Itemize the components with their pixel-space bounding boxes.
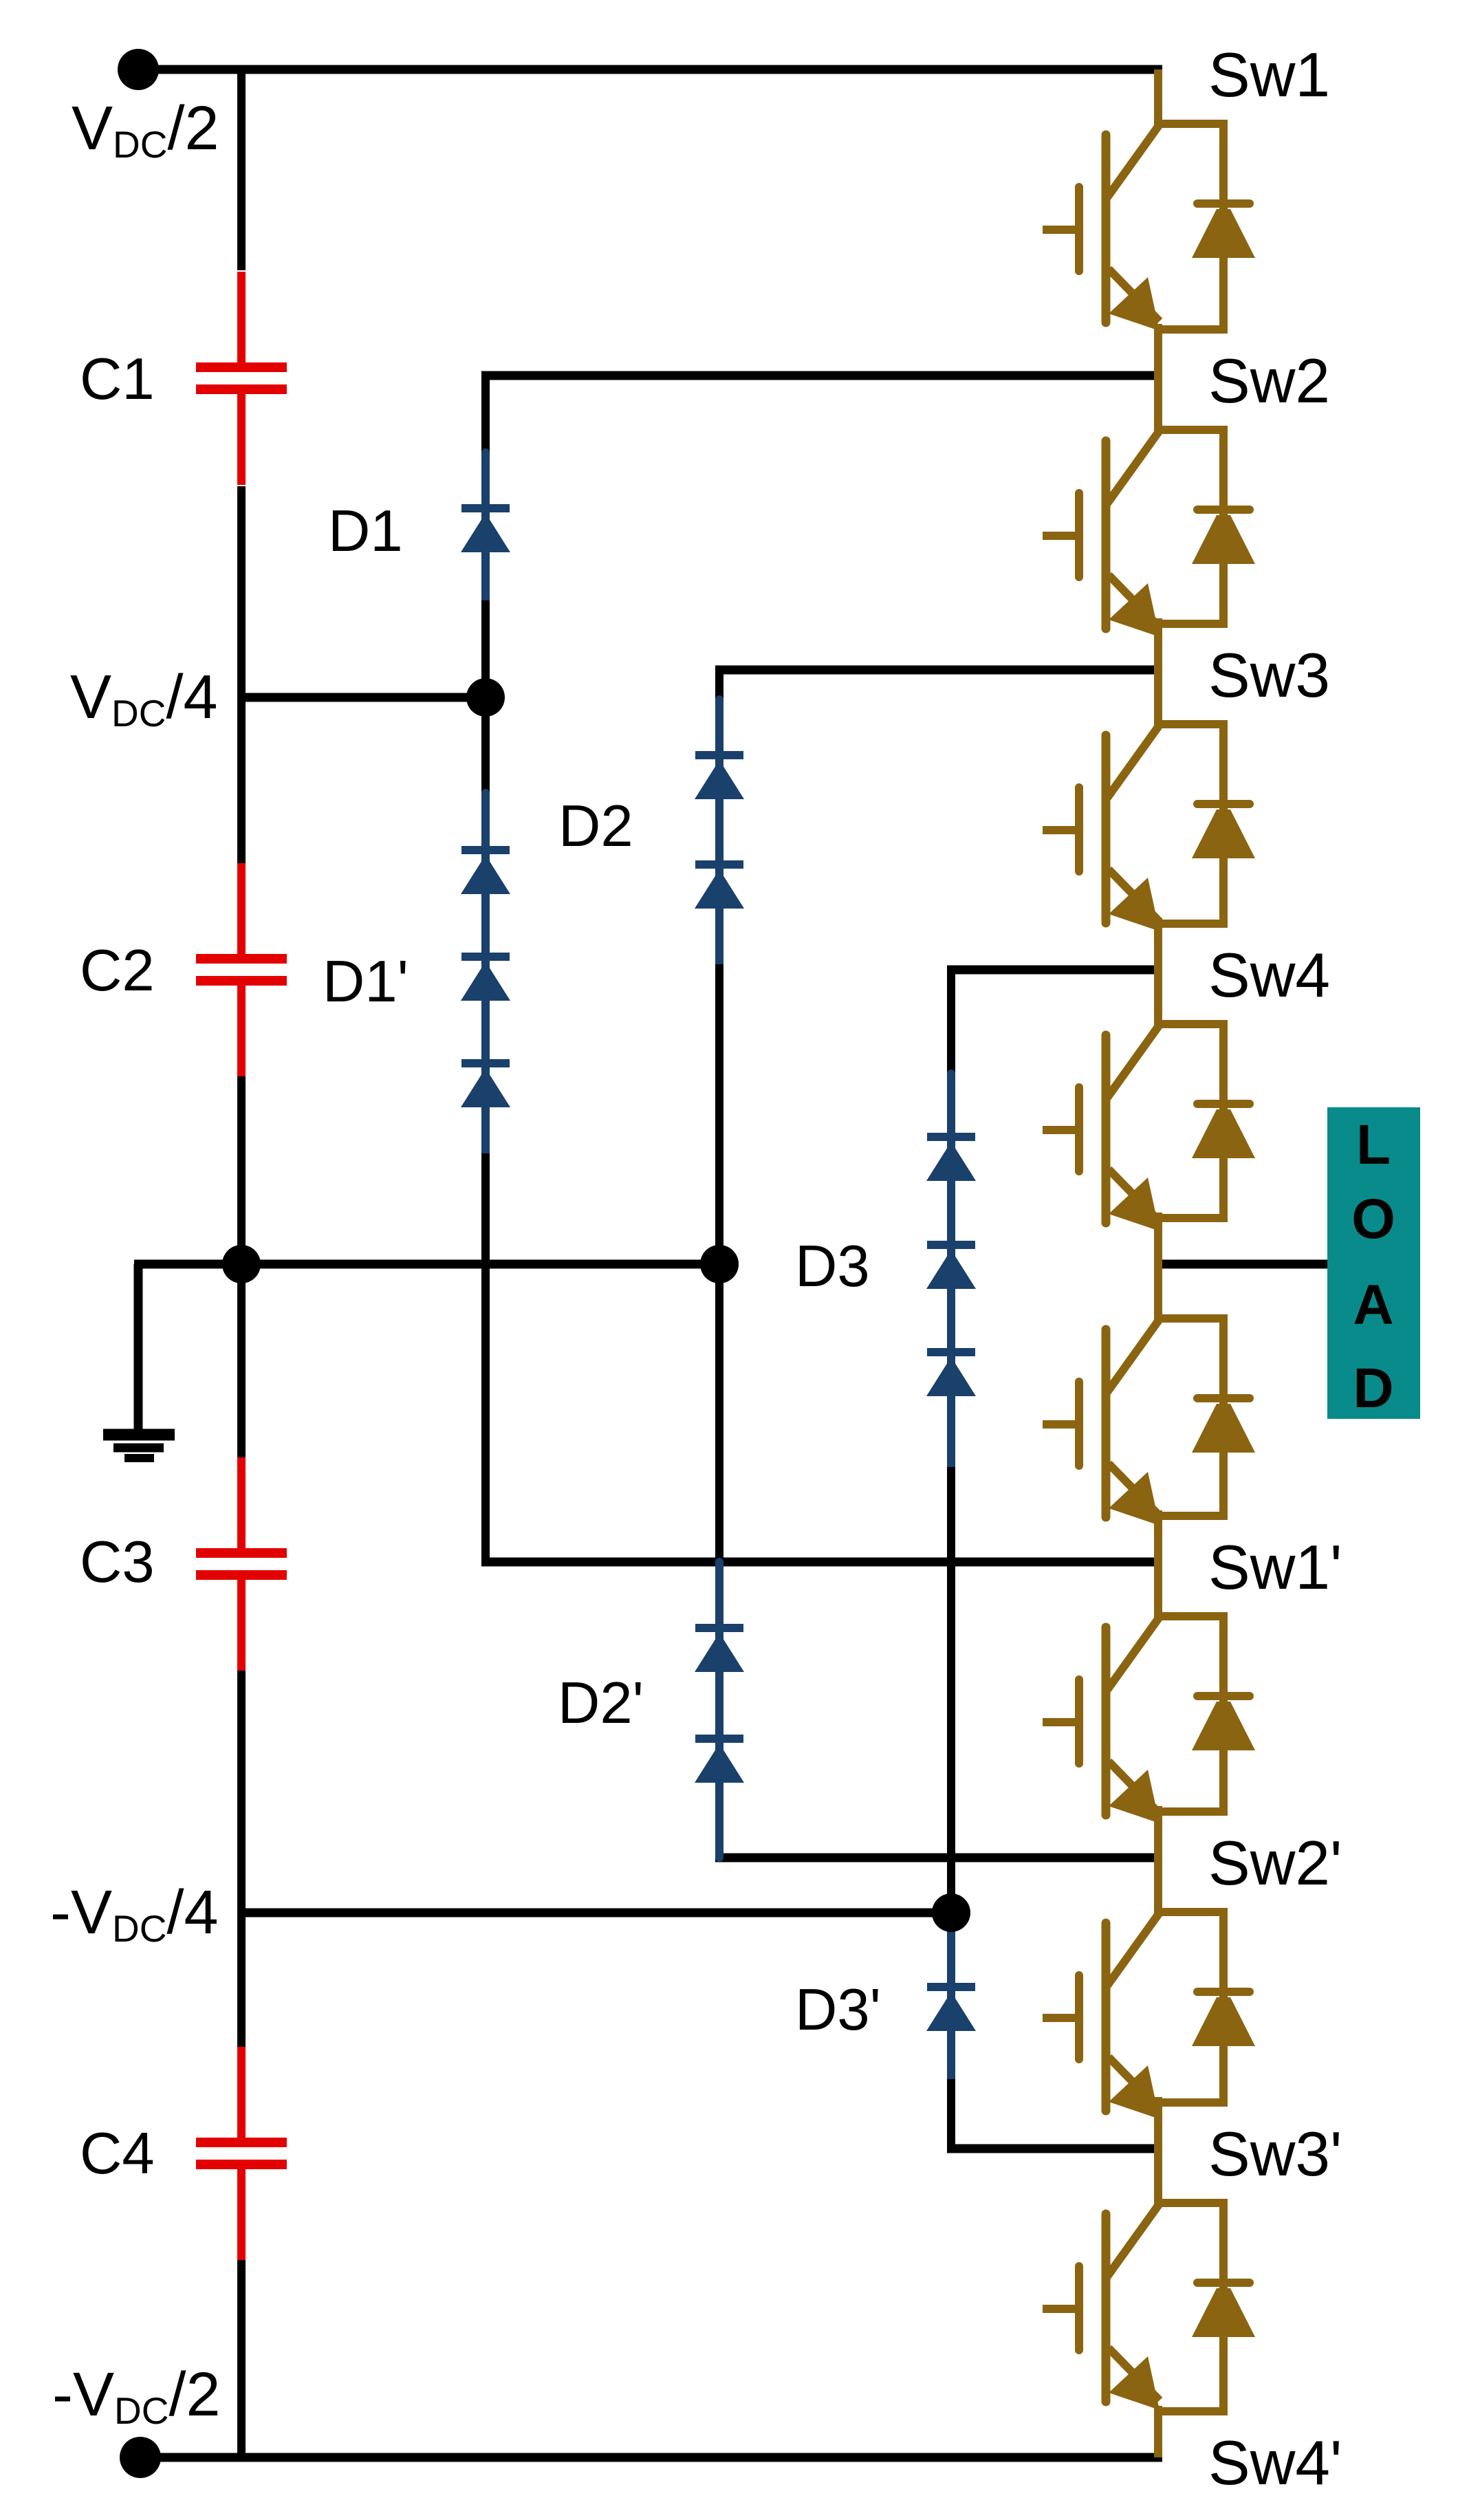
svg-text:D2': D2' — [558, 1671, 644, 1736]
svg-text:Sw2: Sw2 — [1208, 347, 1330, 416]
svg-text:D3': D3' — [795, 1977, 881, 2043]
svg-text:VDC/4: VDC/4 — [70, 663, 218, 735]
svg-text:Sw1: Sw1 — [1208, 41, 1330, 110]
svg-text:C2: C2 — [80, 938, 155, 1003]
svg-text:D3: D3 — [795, 1234, 870, 1299]
svg-text:L: L — [1356, 1114, 1391, 1176]
svg-text:D1': D1' — [323, 949, 409, 1014]
svg-text:Sw4: Sw4 — [1208, 941, 1330, 1010]
svg-text:C4: C4 — [80, 2121, 155, 2186]
svg-text:D1: D1 — [328, 499, 403, 564]
svg-text:O: O — [1351, 1188, 1395, 1250]
svg-text:D: D — [1353, 1357, 1393, 1420]
svg-text:D2: D2 — [558, 794, 633, 859]
svg-text:-VDC/4: -VDC/4 — [50, 1878, 219, 1950]
svg-text:A: A — [1353, 1274, 1393, 1336]
svg-text:-VDC/2: -VDC/2 — [52, 2360, 221, 2432]
svg-text:Sw3: Sw3 — [1208, 641, 1330, 710]
svg-text:Sw3': Sw3' — [1208, 2120, 1342, 2189]
svg-text:C1: C1 — [80, 347, 155, 412]
svg-text:Sw1': Sw1' — [1208, 1533, 1342, 1603]
svg-text:Sw2': Sw2' — [1208, 1829, 1342, 1898]
svg-text:Sw4': Sw4' — [1208, 2429, 1342, 2498]
svg-text:C3: C3 — [80, 1530, 155, 1595]
svg-text:VDC/2: VDC/2 — [72, 94, 219, 166]
